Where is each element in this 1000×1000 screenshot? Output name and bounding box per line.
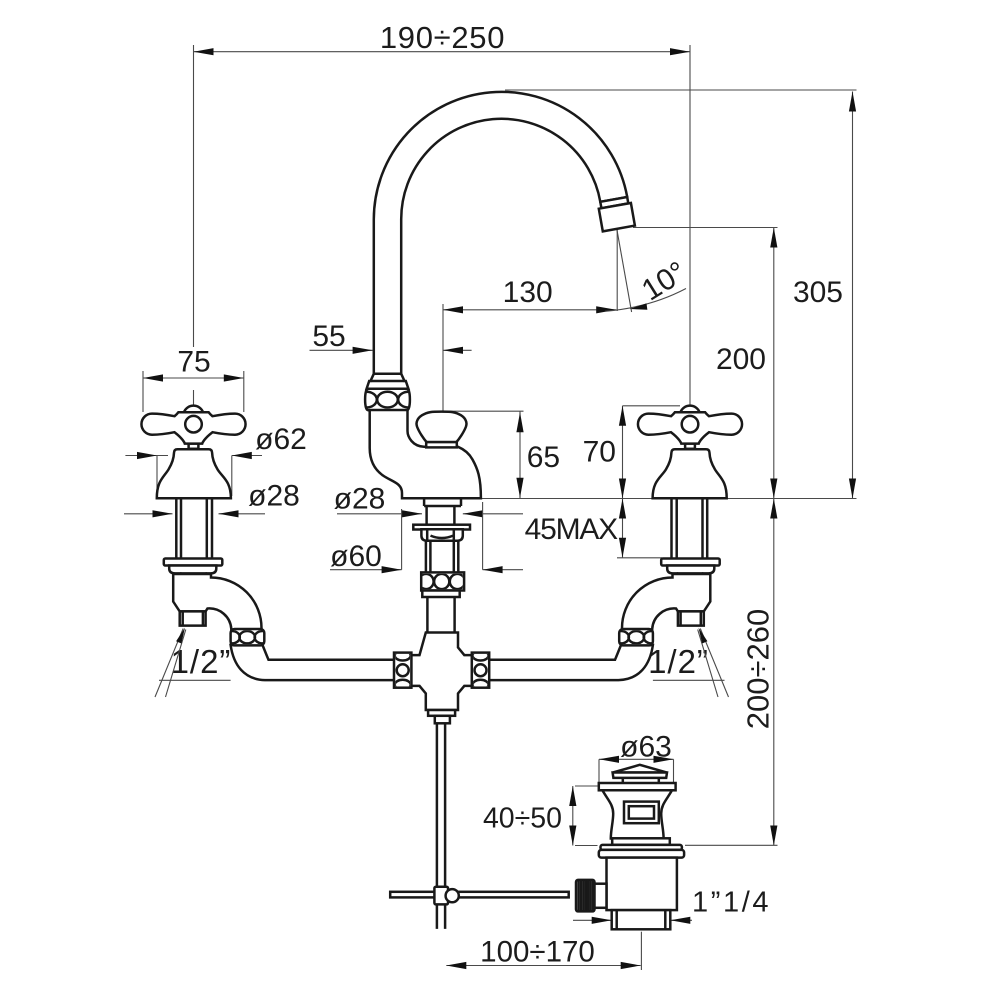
svg-text:100÷170: 100÷170 bbox=[480, 936, 595, 969]
svg-text:ø60: ø60 bbox=[330, 540, 382, 573]
dimension 100÷170 bbox=[446, 965, 640, 967]
spout aerator bbox=[599, 203, 635, 231]
dimension 45MAX bbox=[622, 499, 624, 558]
waste plug cap brim bbox=[613, 773, 667, 778]
svg-text:ø63: ø63 bbox=[620, 731, 672, 764]
dimension 55 bbox=[310, 349, 373, 351]
right leg assembly (mirror) bbox=[460, 498, 720, 680]
svg-text:305: 305 bbox=[793, 276, 843, 309]
pop-up rod bbox=[436, 723, 439, 929]
dimension 65 bbox=[519, 411, 521, 498]
pop-up lever bar bbox=[390, 892, 569, 898]
knurled adjuster gear bbox=[576, 880, 595, 912]
spout nozzle joint band bbox=[600, 197, 628, 208]
deck reference line bbox=[481, 498, 857, 500]
knob collar bbox=[426, 442, 457, 447]
elbow to horizontal pipe bbox=[231, 645, 424, 680]
dimension 200 bbox=[773, 228, 775, 499]
left cross handle bbox=[141, 406, 245, 449]
waste flange lower disc bbox=[599, 850, 684, 858]
dimension 305 bbox=[852, 92, 854, 499]
handle stem lines bbox=[175, 498, 178, 558]
spout beaded collar bbox=[356, 389, 419, 410]
svg-text:1/2”: 1/2” bbox=[648, 643, 709, 680]
waste neck ring bbox=[612, 838, 670, 845]
waste flange upper disc bbox=[601, 845, 682, 850]
centre stem below body bbox=[423, 498, 426, 506]
dimension dia60 bbox=[330, 569, 402, 571]
svg-text:55: 55 bbox=[312, 320, 345, 353]
waste top plate bbox=[599, 783, 676, 790]
svg-text:70: 70 bbox=[583, 436, 616, 469]
tee bottom nut bbox=[435, 716, 450, 724]
threaded rod upper bbox=[425, 506, 428, 525]
lever ball joint bbox=[446, 889, 459, 902]
dimension dia28 left bbox=[124, 513, 173, 515]
faucet body bbox=[370, 410, 481, 498]
svg-text:ø28: ø28 bbox=[248, 480, 300, 513]
svg-text:200: 200 bbox=[716, 343, 766, 376]
tee right knurled nut bbox=[472, 651, 489, 690]
svg-text:190÷250: 190÷250 bbox=[380, 20, 505, 55]
left handle bell bbox=[157, 449, 231, 498]
waste thread tail bbox=[612, 910, 671, 929]
svg-text:130: 130 bbox=[503, 276, 553, 309]
gear collar bbox=[595, 884, 607, 908]
dimension 190÷250 top line bbox=[194, 51, 691, 53]
tee bottom shoulder bbox=[428, 710, 455, 716]
dimension dia63 bbox=[599, 758, 674, 760]
tee cross body bbox=[411, 633, 472, 711]
dimension dia62 bbox=[125, 455, 168, 457]
flange locknut bbox=[169, 566, 216, 574]
handle flange bbox=[164, 559, 223, 566]
dimension dia28 centre bbox=[337, 513, 422, 515]
handle stem to bell bbox=[189, 444, 199, 449]
svg-text:200÷260: 200÷260 bbox=[741, 609, 776, 729]
ring washer bbox=[422, 591, 459, 598]
deck flange plate bbox=[413, 525, 470, 530]
top arm dome bbox=[184, 406, 203, 413]
leg 1/2 inch nipple bbox=[180, 611, 206, 625]
dimension 75 bbox=[143, 377, 244, 379]
svg-text:40÷50: 40÷50 bbox=[483, 803, 562, 835]
svg-text:65: 65 bbox=[527, 441, 560, 474]
tulip window bbox=[624, 802, 659, 824]
leg tube and diagonal pipe bbox=[173, 574, 261, 631]
waste body bbox=[607, 858, 677, 911]
dimension 40÷50 bbox=[572, 786, 574, 846]
spout tube gooseneck bbox=[374, 92, 627, 377]
handle hub bbox=[185, 416, 202, 433]
extension line right handle axis bbox=[689, 45, 691, 406]
dimension 130 bbox=[443, 309, 616, 311]
tee left knurled nut bbox=[394, 651, 411, 690]
dimension 1"1/4 bbox=[573, 919, 612, 921]
union knurled nut bbox=[224, 629, 270, 645]
cross arms bbox=[141, 412, 245, 443]
body acorn knob bbox=[417, 412, 467, 443]
svg-text:1”1/4: 1”1/4 bbox=[692, 887, 771, 919]
locknut bbox=[421, 529, 462, 540]
angle arc bbox=[605, 289, 686, 312]
dimension 70 bbox=[622, 406, 624, 499]
lever collar on rod bbox=[434, 887, 448, 905]
svg-text:75: 75 bbox=[177, 346, 210, 379]
svg-text:45MAX: 45MAX bbox=[525, 513, 619, 546]
spout base flare bbox=[367, 374, 409, 389]
dimension 200÷260 bbox=[773, 499, 775, 846]
supply tube to tee bbox=[426, 597, 429, 633]
extension line left handle axis bbox=[193, 45, 195, 347]
dimension 10 degrees : stream lines bbox=[616, 229, 618, 311]
waste tulip neck bbox=[602, 790, 672, 838]
svg-text:ø62: ø62 bbox=[255, 423, 307, 456]
dia60 beaded ring nut bbox=[418, 572, 465, 590]
svg-text:ø28: ø28 bbox=[334, 483, 386, 516]
waste plug cap cone bbox=[613, 765, 667, 773]
threaded shank lower bbox=[425, 541, 428, 573]
